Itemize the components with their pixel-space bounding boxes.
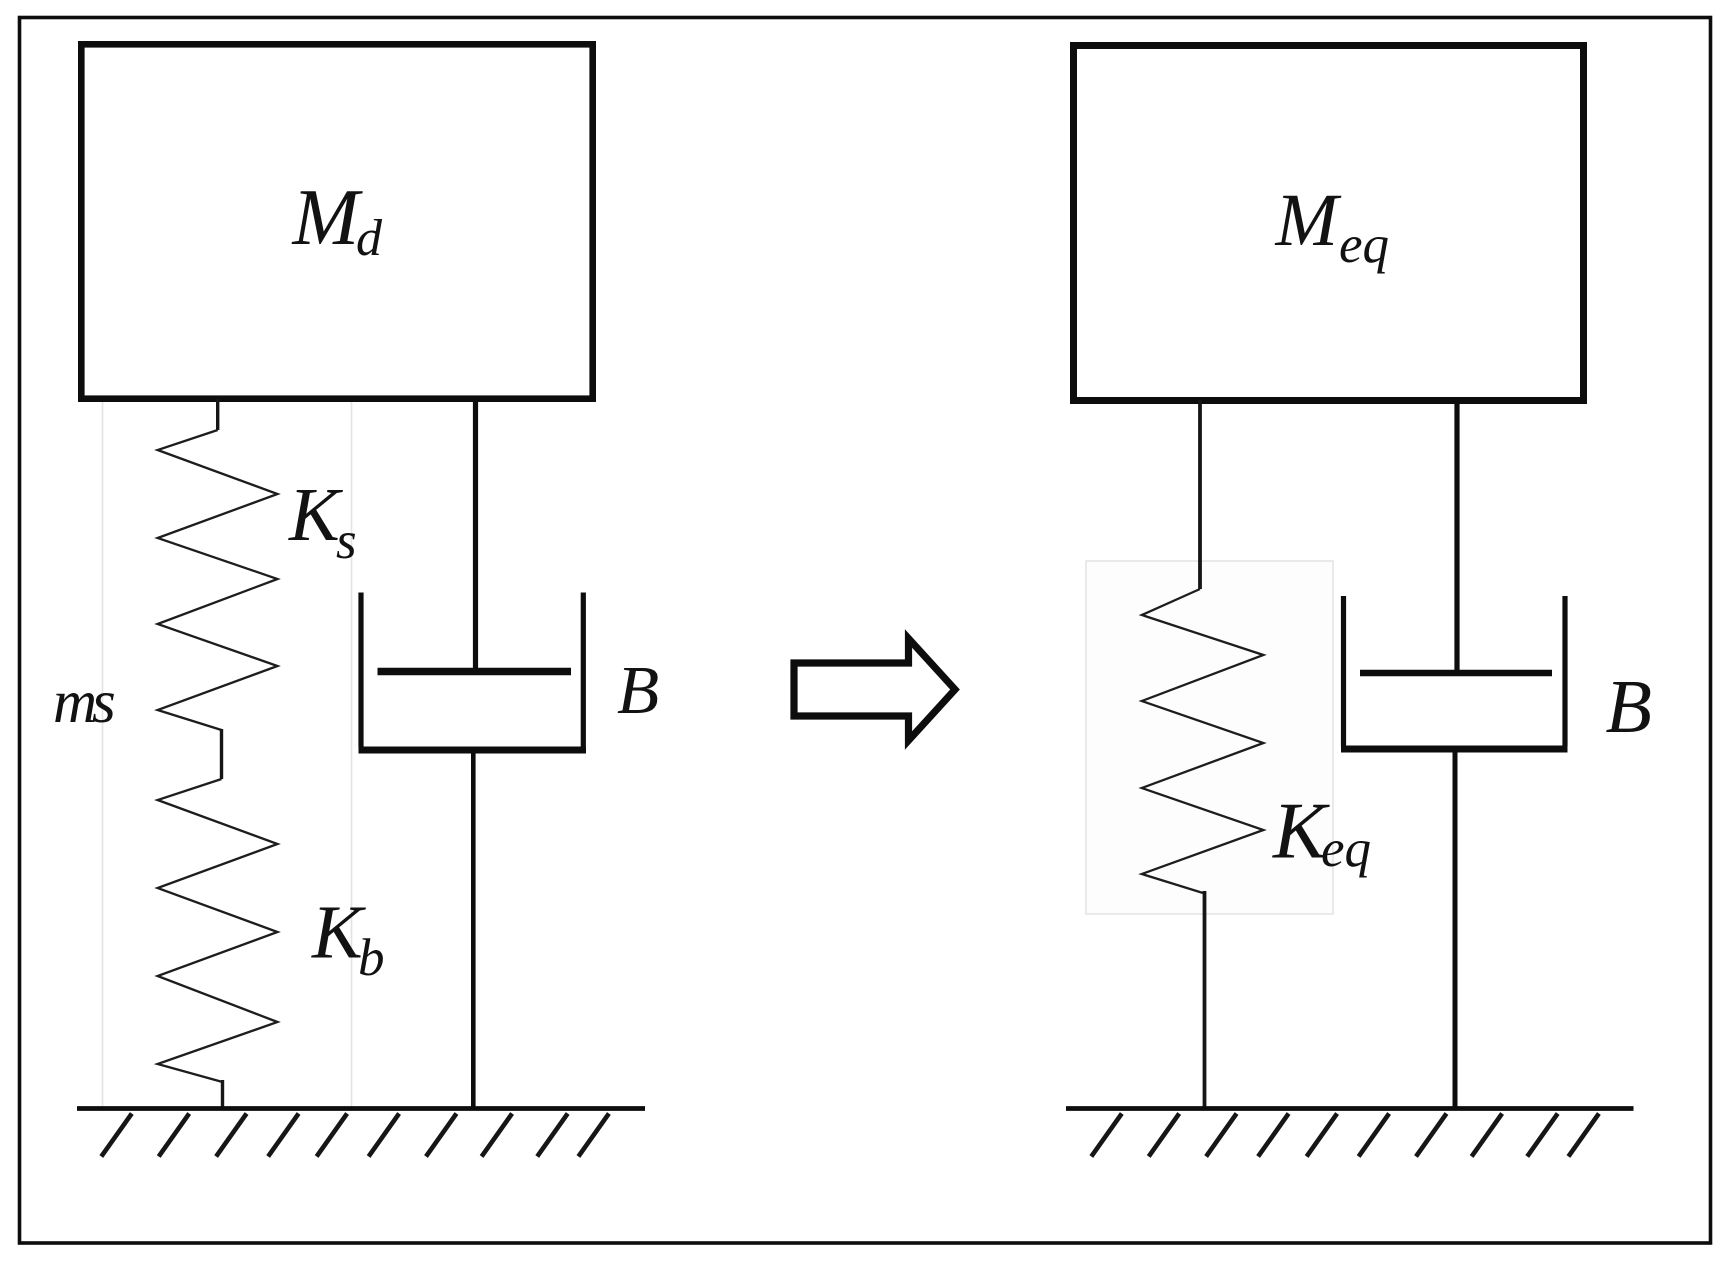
svg-text:B: B	[1606, 665, 1652, 749]
ground line (left)	[77, 1106, 645, 1111]
node ms junction wire between springs	[220, 729, 223, 779]
wire: spring Keq top rod	[1198, 400, 1202, 589]
svg-text:B: B	[617, 652, 659, 728]
spring Keq	[1142, 589, 1264, 893]
svg-text:eq: eq	[1321, 820, 1371, 878]
damper B cylinder (right)	[1344, 596, 1566, 746]
damper B piston plate (right)	[1360, 670, 1552, 676]
svg-text:s: s	[336, 512, 357, 570]
wire: damper B lower rod (left)	[471, 750, 476, 1109]
wire: spring bottom connector	[221, 1080, 224, 1109]
wire: spring Keq bottom rod	[1203, 891, 1207, 1109]
pasted image box (right spring)	[1086, 561, 1333, 914]
ground line (right)	[1066, 1106, 1634, 1111]
wire: damper B upper rod (right)	[1454, 403, 1459, 673]
wire: damper B upper rod (left)	[473, 399, 478, 671]
mass Meq box	[1074, 46, 1584, 401]
ground hatching (left)	[101, 1114, 609, 1157]
wire: spring top connector	[216, 399, 219, 430]
damper B cylinder (left)	[361, 593, 583, 747]
ground hatching (right)	[1091, 1114, 1599, 1157]
pasted image edge lines (left system)	[103, 402, 352, 1107]
svg-text:K: K	[288, 473, 343, 557]
svg-text:b: b	[358, 929, 385, 987]
svg-text:eq: eq	[1339, 216, 1389, 274]
svg-text:M: M	[1275, 179, 1342, 262]
mass Md box	[81, 44, 592, 398]
arrow (transformation)	[794, 639, 955, 741]
svg-text:ms: ms	[53, 669, 114, 736]
spring Kb (lower left spring)	[158, 779, 278, 1082]
spring Ks (upper left spring)	[158, 430, 278, 730]
svg-text:d: d	[356, 210, 383, 267]
wire: damper B lower rod (right)	[1453, 749, 1458, 1109]
damper B piston plate (left)	[378, 668, 572, 676]
svg-text:M: M	[292, 174, 364, 262]
